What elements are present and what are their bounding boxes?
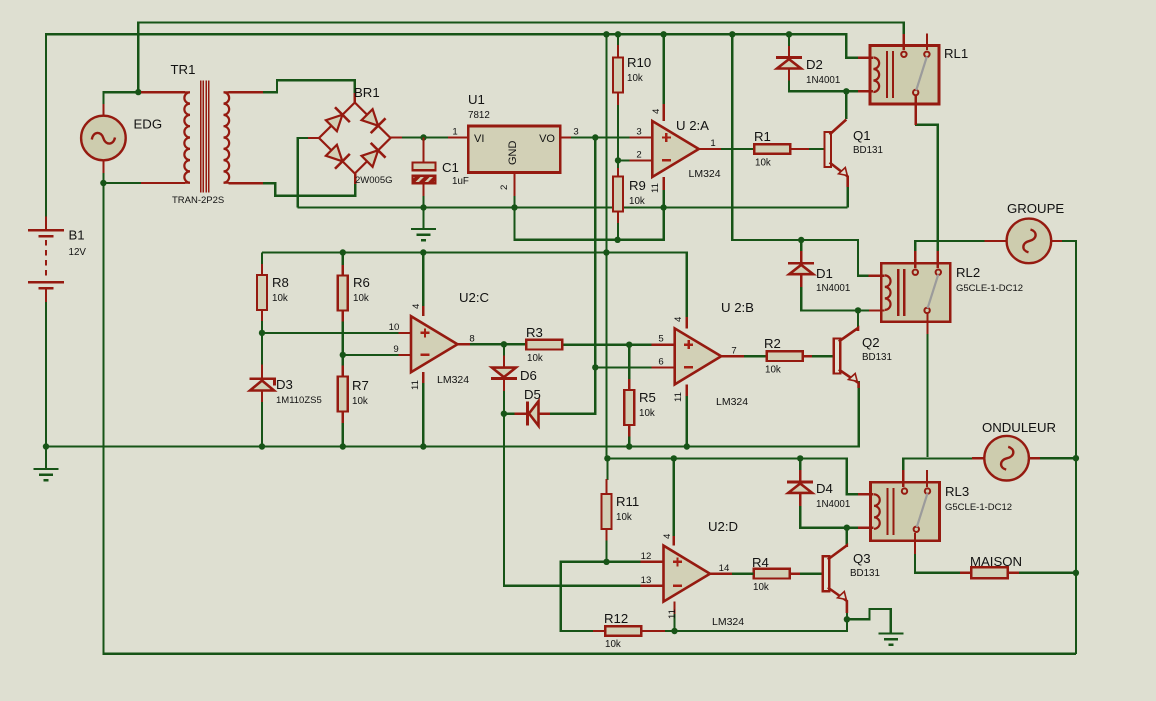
wire D1 anode to RL2 coil bottom bbox=[800, 275, 802, 288]
svg-text:7812: 7812 bbox=[468, 110, 490, 121]
node U1 GND on 0V line bbox=[511, 204, 517, 210]
relay RL2 G5CLE-1-DC12 bbox=[881, 263, 950, 322]
svg-text:R9: R9 bbox=[629, 178, 646, 193]
svg-text:10k: 10k bbox=[627, 73, 643, 84]
wire R6 column bbox=[342, 253, 344, 267]
node D2/RL1 branch vertical on top bus bbox=[729, 31, 735, 37]
svg-text:R10: R10 bbox=[627, 55, 651, 70]
wire vertical feed to relay-2 rail bbox=[732, 34, 858, 275]
svg-text:D6: D6 bbox=[520, 368, 537, 383]
svg-text:VO: VO bbox=[539, 133, 555, 145]
diode D6 bbox=[492, 368, 516, 378]
AC load ONDULEUR bbox=[972, 457, 985, 459]
svg-text:LM324: LM324 bbox=[689, 168, 721, 180]
wire U2:A pin2 stub bbox=[629, 159, 652, 161]
wire R7 column to ground bus bbox=[342, 355, 344, 366]
wire D5 right to pin6 vertical bbox=[504, 413, 515, 415]
node D3 bottom on ground bus bbox=[259, 443, 265, 449]
svg-text:B1: B1 bbox=[69, 228, 85, 243]
wire U2:D pin12 stub bbox=[640, 561, 663, 563]
diode D2 1N4001 bbox=[776, 56, 802, 59]
wire U2:C pin9 line bbox=[343, 354, 399, 356]
AC source EDG bbox=[102, 104, 104, 116]
resistor R9 bbox=[617, 168, 619, 177]
svg-text:4: 4 bbox=[662, 533, 673, 539]
svg-text:R11: R11 bbox=[616, 494, 639, 509]
wire U2:B pin6 stub bbox=[651, 366, 674, 368]
node D1 top on relay-2 rail bbox=[798, 237, 804, 243]
resistor R2 bbox=[767, 351, 803, 361]
bridge diode top-right bbox=[362, 109, 379, 126]
svg-text:R6: R6 bbox=[353, 275, 370, 290]
svg-text:10k: 10k bbox=[639, 408, 655, 419]
bridge diode bottom-right bbox=[362, 150, 379, 167]
svg-text:11: 11 bbox=[667, 609, 678, 619]
wire Q3 collector diagonal bbox=[828, 546, 847, 560]
svg-text:2: 2 bbox=[636, 150, 641, 161]
wire D5 junction down to U2:D pin13 line bbox=[504, 414, 641, 586]
ground symbol bottom-left bbox=[45, 447, 47, 470]
wire U1 GND loop down to R9/op-amp ground return bbox=[515, 208, 664, 240]
node U2:C pin11 on ground bus bbox=[420, 443, 426, 449]
wire right-side vertical (GROUPE/ONDULEUR/MAISON rail) bbox=[1064, 241, 1076, 654]
svg-text:TR1: TR1 bbox=[171, 62, 196, 77]
svg-text:LM324: LM324 bbox=[437, 374, 469, 386]
svg-text:RL1: RL1 bbox=[944, 46, 968, 61]
node R5 top on pin5 line bbox=[626, 342, 632, 348]
wire R11 column bbox=[606, 458, 608, 480]
wire Q1 emitter down to 0V line bbox=[847, 186, 849, 208]
Q3 emitter arrow bbox=[838, 592, 847, 600]
svg-text:R7: R7 bbox=[352, 378, 369, 393]
svg-text:RL3: RL3 bbox=[945, 484, 969, 499]
svg-text:3: 3 bbox=[636, 127, 641, 138]
node EDG-top / TR1 primary junction bbox=[135, 89, 141, 95]
svg-text:4: 4 bbox=[651, 108, 662, 114]
relay RL3 G5CLE-1-DC12 bbox=[871, 482, 940, 541]
wire U2:C output stub bbox=[458, 343, 471, 345]
svg-text:1N4001: 1N4001 bbox=[816, 499, 850, 510]
wire U2:A pin4 supply bbox=[662, 34, 664, 104]
node R11 bottom on pin12 line bbox=[603, 559, 609, 565]
svg-text:10k: 10k bbox=[527, 353, 543, 364]
regulator U1 7812 bbox=[468, 126, 560, 173]
node U2:D pin4 tap bbox=[671, 455, 677, 461]
relay RL1 bbox=[870, 46, 939, 105]
svg-text:10k: 10k bbox=[272, 293, 288, 304]
svg-text:R12: R12 bbox=[604, 611, 628, 626]
op-amp U2:B bbox=[675, 328, 722, 384]
resistor R12 bbox=[605, 626, 641, 636]
svg-text:10k: 10k bbox=[765, 365, 781, 376]
wire GROUPE right to rail bbox=[1051, 240, 1076, 242]
AC load GROUPE bbox=[985, 240, 1007, 242]
wire U2:C output to R3 / D6 bbox=[470, 343, 526, 345]
wire U2:A output to R1 bbox=[721, 148, 754, 150]
svg-text:U2:C: U2:C bbox=[459, 290, 490, 305]
node RL1 coil- / D2 / Q1 collector bbox=[843, 88, 849, 94]
wire U2:C pin11 to ground bus bbox=[422, 382, 424, 447]
diode D1 1N4001 bbox=[788, 262, 814, 265]
wire R5 column to ground bus bbox=[628, 345, 630, 380]
resistor R3 bbox=[526, 340, 562, 350]
wire BR1 left pin bbox=[308, 137, 319, 139]
svg-text:D5: D5 bbox=[524, 387, 541, 402]
node ONDULEUR right on rail bbox=[1073, 455, 1079, 461]
svg-text:R2: R2 bbox=[764, 336, 781, 351]
svg-text:C1: C1 bbox=[442, 160, 459, 175]
svg-text:D1: D1 bbox=[816, 266, 833, 281]
wire U2:A pin11 stub bbox=[662, 177, 664, 190]
wire R1 to Q1 base bbox=[791, 148, 809, 150]
wire U2:D pin11 bbox=[673, 614, 675, 631]
svg-text:EDG: EDG bbox=[134, 117, 163, 132]
svg-text:2: 2 bbox=[499, 185, 510, 190]
svg-text:10k: 10k bbox=[616, 512, 632, 523]
wire U2:A pin3 stub bbox=[629, 136, 652, 138]
svg-text:VI: VI bbox=[474, 133, 484, 145]
fuse/load MAISON bbox=[960, 572, 971, 574]
svg-text:1N4001: 1N4001 bbox=[806, 75, 840, 86]
zener diode D3 1M110ZS5 bbox=[250, 379, 275, 386]
wire ONDULEUR line to RL3 left pin bbox=[903, 458, 977, 470]
capacitor C1 bbox=[422, 138, 424, 163]
transistor Q2 bbox=[834, 339, 841, 374]
bridge rectifier BR1 bbox=[319, 103, 391, 174]
wire RL3 coil pins bbox=[858, 493, 874, 495]
svg-text:8: 8 bbox=[469, 334, 474, 345]
wire U2:D pin11 stub bbox=[673, 602, 675, 614]
wire D6 anode to D5 node bbox=[503, 379, 505, 391]
node supply row tap R6 bbox=[340, 249, 346, 255]
wire U2:D pin4 stub bbox=[673, 536, 675, 546]
wire U2:B pin4 stub bbox=[686, 317, 688, 328]
resistor R4 bbox=[754, 569, 790, 579]
wire U2:D pin4 feed bbox=[673, 458, 675, 536]
wire U2:D output stub bbox=[710, 573, 732, 575]
svg-text:U2:D: U2:D bbox=[708, 519, 738, 534]
wire 0V line (bridge- / C1- / U1 GND / opampA pin11 / Q1 emitter) bbox=[298, 206, 848, 208]
svg-text:GND: GND bbox=[507, 141, 519, 166]
svg-text:R1: R1 bbox=[754, 129, 771, 144]
svg-text:BD131: BD131 bbox=[853, 145, 883, 156]
svg-text:10k: 10k bbox=[753, 582, 769, 593]
svg-text:MAISON: MAISON bbox=[970, 554, 1022, 569]
diode D5 bbox=[526, 402, 529, 426]
wire U2:C pin4 stub bbox=[422, 306, 424, 316]
wire U1 pin3 bbox=[560, 136, 571, 138]
svg-text:Q1: Q1 bbox=[853, 128, 871, 143]
wire U2:B output to R2 bbox=[744, 355, 767, 357]
svg-text:GROUPE: GROUPE bbox=[1007, 201, 1064, 216]
svg-text:1: 1 bbox=[452, 127, 457, 138]
svg-text:G5CLE-1-DC12: G5CLE-1-DC12 bbox=[945, 502, 1012, 513]
wire RL2 common stub bbox=[926, 314, 928, 334]
wire RL1 coil pins bbox=[858, 57, 873, 59]
wire U2:D pin13 stub bbox=[640, 584, 663, 586]
svg-text:10k: 10k bbox=[755, 158, 771, 169]
transistor Q1 bbox=[825, 132, 832, 167]
wire BR1 plus output to C1/U1 bbox=[402, 136, 448, 138]
node supply row from long vertical bbox=[603, 249, 609, 255]
svg-text:13: 13 bbox=[641, 575, 652, 586]
svg-text:RL2: RL2 bbox=[956, 265, 980, 280]
wire GROUPE left stub green part bbox=[915, 240, 984, 242]
op-amp U2:A bbox=[652, 121, 699, 177]
wire EDG top to transformer primary bbox=[103, 92, 141, 106]
svg-text:12: 12 bbox=[641, 551, 652, 562]
resistor R6 bbox=[338, 276, 348, 311]
wire battery minus to ground bus bbox=[45, 301, 47, 447]
wire U2:C pin10 stub bbox=[399, 332, 411, 334]
wire Q1 collector bbox=[845, 91, 847, 119]
wire D6 top feed bbox=[503, 344, 505, 356]
wire Q3 emitter ground branch bbox=[847, 609, 891, 634]
transformer TR1 bbox=[141, 80, 263, 192]
svg-text:11: 11 bbox=[673, 392, 684, 402]
op-amp U2:C bbox=[411, 316, 458, 372]
wire RL1 switch pin stubs bbox=[903, 34, 905, 50]
svg-text:R3: R3 bbox=[526, 325, 543, 340]
wire U2:B output stub bbox=[721, 355, 744, 357]
svg-text:Q3: Q3 bbox=[853, 551, 871, 566]
svg-text:4: 4 bbox=[411, 303, 422, 309]
svg-text:7: 7 bbox=[731, 346, 736, 357]
node U2:A pin4 on top bus bbox=[660, 31, 666, 37]
node R11 top bbox=[604, 455, 610, 461]
wire R12 right to U2:D pin11 node bbox=[665, 630, 675, 632]
wire U2:B pin5 stub bbox=[651, 344, 674, 346]
svg-text:3: 3 bbox=[573, 127, 578, 138]
wire EDG bottom rail down-left to bottom bus bbox=[103, 183, 1076, 654]
Q1 emitter arrow bbox=[839, 168, 848, 176]
node R9 bottom on ground return bbox=[614, 237, 620, 243]
svg-text:TRAN-2P2S: TRAN-2P2S bbox=[172, 195, 224, 206]
wire R10/R9 column bbox=[617, 44, 619, 58]
wire EDG bottom / primary bottom junction bbox=[103, 172, 141, 183]
op-amp U2:D bbox=[664, 546, 711, 602]
wire U2:C pin4 feed bbox=[422, 253, 424, 307]
wire U1 output (+12V) to U2:A pin3 line bbox=[571, 136, 629, 138]
wire U2:A pin2 line bbox=[618, 159, 629, 161]
node RL3 coil- / D4 / Q3 collector bbox=[844, 525, 850, 531]
wire R2 to Q2 base bbox=[801, 355, 812, 357]
resistor R11 bbox=[602, 494, 612, 529]
svg-text:6: 6 bbox=[658, 357, 663, 368]
wire D4 anode to RL3 coil bottom bbox=[799, 493, 801, 506]
wire ONDULEUR right to rail bbox=[1029, 457, 1076, 459]
svg-text:BR1: BR1 bbox=[354, 85, 380, 100]
wire Q2 collector diagonal bbox=[839, 328, 858, 342]
svg-text:ONDULEUR: ONDULEUR bbox=[982, 420, 1056, 435]
wire long vertical from top bus to R11 bbox=[605, 34, 607, 458]
wire U1 pin1 bbox=[448, 136, 468, 138]
wire RL1 common stub bbox=[915, 95, 917, 124]
wire TR1 secondary top to BR1 top vertex bbox=[263, 80, 355, 103]
svg-text:1M110ZS5: 1M110ZS5 bbox=[276, 395, 322, 406]
wire D1 feed line bbox=[800, 240, 802, 252]
node U2:D pin11 on R12 line bbox=[671, 628, 677, 634]
wire R3 right to U2:B pin5 line bbox=[562, 344, 652, 346]
wire Q1 emitter diagonal bbox=[830, 163, 848, 188]
wire top bus 1 (EDG top to RL1) bbox=[138, 23, 903, 93]
wire D2 top feed bbox=[788, 34, 790, 46]
wire U2:C pin10 line bbox=[262, 332, 399, 334]
resistor R8 bbox=[257, 275, 267, 310]
svg-text:LM324: LM324 bbox=[712, 616, 744, 628]
wire RL3 common stub bbox=[914, 533, 916, 554]
svg-text:10: 10 bbox=[389, 322, 400, 333]
svg-text:10k: 10k bbox=[353, 293, 369, 304]
svg-text:11: 11 bbox=[650, 183, 661, 193]
svg-text:G5CLE-1-DC12: G5CLE-1-DC12 bbox=[956, 283, 1023, 294]
svg-text:12V: 12V bbox=[69, 247, 87, 258]
node R5 bottom on ground bus bbox=[626, 443, 632, 449]
node EDG bottom bbox=[100, 180, 106, 186]
node U2:B pin11 on ground bus bbox=[684, 443, 690, 449]
node Q3 emitter / ground branch bbox=[844, 616, 850, 622]
node C1 bottom on 0V line bbox=[420, 204, 426, 210]
wire RL2 switch pin stubs bbox=[914, 251, 916, 268]
svg-text:9: 9 bbox=[393, 344, 398, 355]
resistor R7 bbox=[338, 377, 348, 412]
wire Q2 emitter diagonal bbox=[839, 370, 859, 389]
wire +12V vertical down to D5/D6 node bbox=[560, 138, 595, 414]
node U2:C out / D6 top bbox=[501, 341, 507, 347]
svg-text:D3: D3 bbox=[276, 377, 293, 392]
resistor R1 bbox=[754, 144, 790, 154]
wire supply feed line for stage 3 (y=458.4) bbox=[607, 458, 858, 494]
svg-text:LM324: LM324 bbox=[716, 396, 748, 408]
ground symbol under C1 bbox=[422, 208, 424, 230]
wire Q3 collector bbox=[846, 528, 848, 546]
wire BR1 right pin bbox=[391, 136, 403, 138]
wire R12 line to Q3 emitter bbox=[675, 612, 847, 631]
wire U1 pin2 bbox=[513, 172, 515, 196]
svg-text:D2: D2 bbox=[806, 57, 823, 72]
node C1 top bbox=[420, 134, 426, 140]
node U2:A pin11 on 0V line bbox=[660, 204, 666, 210]
svg-text:1: 1 bbox=[710, 138, 715, 149]
svg-text:11: 11 bbox=[410, 380, 421, 390]
wire Q2 collector bbox=[857, 310, 859, 331]
node +12V at pin3 line bbox=[592, 134, 598, 140]
svg-text:R5: R5 bbox=[639, 390, 656, 405]
bridge diode bottom-left bbox=[326, 145, 343, 162]
node D4 top bbox=[797, 455, 803, 461]
wire U2:C pin11 stub bbox=[422, 372, 424, 383]
svg-text:BD131: BD131 bbox=[862, 352, 892, 363]
wire +12V feed line for U2 supply row (y=252.5) bbox=[262, 253, 687, 319]
resistor R5 bbox=[624, 390, 634, 425]
resistor R10 bbox=[617, 34, 619, 45]
wire U2:A output stub bbox=[699, 148, 721, 150]
svg-text:R8: R8 bbox=[272, 275, 289, 290]
wire TR1 secondary bottom to BR1 bottom vertex bbox=[263, 183, 355, 195]
svg-text:D4: D4 bbox=[816, 481, 833, 496]
svg-text:2W005G: 2W005G bbox=[355, 175, 393, 186]
wire R4 wires bbox=[732, 573, 754, 575]
node R10 bottom / R9 top / pin2 bbox=[615, 157, 621, 163]
wire D2 anode to RL1 coil bottom bbox=[788, 69, 790, 81]
node RL2 coil- / D1 / Q2 collector bbox=[855, 307, 861, 313]
wire RL3 switch pin stubs bbox=[902, 470, 904, 487]
wire RL1 common to RL2 NC rail bbox=[915, 125, 938, 251]
svg-text:U1: U1 bbox=[468, 92, 485, 107]
wire RL3 common to MAISON bbox=[915, 553, 960, 573]
wire RL2 left switch pin to GROUPE line bbox=[915, 241, 995, 252]
svg-text:1N4001: 1N4001 bbox=[816, 283, 850, 294]
wire top bus 2 (battery + rail to RL1 coil) bbox=[46, 34, 858, 217]
svg-text:5: 5 bbox=[658, 334, 663, 345]
svg-text:14: 14 bbox=[719, 563, 730, 574]
wire U2:A pin11 to 0V bbox=[662, 189, 664, 208]
node D6/D5 junction bbox=[501, 411, 507, 417]
node supply row tap U2:C pin4 bbox=[420, 249, 426, 255]
node R10 top on top bus bbox=[615, 31, 621, 37]
wire MAISON right to rail bbox=[1019, 572, 1076, 574]
wire U2:D pin12 line / R12 feedback loop bbox=[561, 562, 641, 631]
node R6 bottom / R7 top / pin9 bbox=[340, 352, 346, 358]
wire Q1 collector diagonal bbox=[830, 120, 847, 135]
ground symbol at Q3 emitter bbox=[878, 634, 903, 645]
wire D4 feed bbox=[799, 458, 801, 470]
svg-text:10k: 10k bbox=[352, 396, 368, 407]
wire Q3 emitter diagonal bbox=[828, 588, 847, 614]
node MAISON right on rail bbox=[1073, 570, 1079, 576]
node R8 bottom / D3 / pin10 bbox=[259, 330, 265, 336]
svg-text:R4: R4 bbox=[752, 555, 769, 570]
svg-text:1uF: 1uF bbox=[452, 176, 469, 187]
battery B1 bbox=[28, 217, 64, 303]
wire U2:B pin11 to ground bus bbox=[686, 385, 688, 447]
svg-text:U 2:A: U 2:A bbox=[676, 118, 709, 133]
node battery/ground junction bbox=[43, 443, 49, 449]
svg-text:Q2: Q2 bbox=[862, 335, 880, 350]
transistor Q3 bbox=[823, 556, 830, 591]
wire U2:B pin11 stub bbox=[686, 384, 688, 396]
wire BR1 bottom pin bbox=[354, 174, 356, 185]
wire D3 column to ground bus bbox=[261, 333, 263, 365]
wire U2:A pin4 stub bbox=[662, 104, 664, 121]
node D2 top on top bus bbox=[786, 31, 792, 37]
svg-text:10k: 10k bbox=[629, 196, 645, 207]
node vertical joins U2:B pin6 line bbox=[592, 364, 598, 370]
wire U2:B pin6 line bbox=[595, 366, 651, 368]
node top bus tap 1 bbox=[603, 31, 609, 37]
node R7 bottom on ground bus bbox=[340, 443, 346, 449]
svg-text:U 2:B: U 2:B bbox=[721, 300, 754, 315]
wire 0V bottom bus bbox=[46, 381, 859, 447]
svg-text:BD131: BD131 bbox=[850, 568, 880, 579]
diode D4 1N4001 bbox=[787, 481, 813, 484]
svg-text:10k: 10k bbox=[605, 639, 621, 650]
svg-text:4: 4 bbox=[673, 316, 684, 322]
wire RL2 coil pins bbox=[857, 275, 869, 277]
bridge diode top-left bbox=[326, 115, 343, 132]
wire R8 column bbox=[261, 253, 263, 266]
Q2 emitter arrow bbox=[849, 374, 858, 382]
wire BR1 top pin bbox=[354, 93, 356, 103]
wire BR1 minus (left vertex) to 0V line bbox=[298, 138, 308, 208]
wire U2:C pin9 stub bbox=[399, 354, 411, 356]
wire RL2 common down to ONDULEUR rail bbox=[926, 333, 928, 457]
